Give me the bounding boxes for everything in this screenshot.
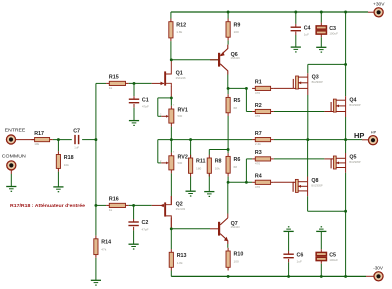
svg-text:100: 100 xyxy=(234,30,239,34)
svg-text:2N5416: 2N5416 xyxy=(231,56,241,60)
svg-text:R4: R4 xyxy=(255,174,262,180)
svg-text:100: 100 xyxy=(234,260,239,264)
svg-text:HP: HP xyxy=(371,131,377,135)
svg-text:R18: R18 xyxy=(64,155,74,161)
svg-text:47k: 47k xyxy=(101,247,106,251)
svg-text:1uF: 1uF xyxy=(304,33,309,37)
svg-text:2SJ103: 2SJ103 xyxy=(176,207,186,211)
svg-text:R1: R1 xyxy=(255,80,262,86)
svg-text:1k: 1k xyxy=(109,86,113,90)
svg-text:68: 68 xyxy=(234,106,238,110)
svg-text:1k: 1k xyxy=(109,208,113,212)
svg-text:47pF: 47pF xyxy=(142,105,149,109)
svg-text:BUZ900P: BUZ900P xyxy=(349,103,361,107)
svg-text:Q3: Q3 xyxy=(312,75,319,81)
svg-text:R10: R10 xyxy=(234,252,244,258)
svg-text:C7: C7 xyxy=(73,128,80,134)
svg-text:180: 180 xyxy=(196,167,201,171)
svg-text:Q8: Q8 xyxy=(311,178,318,184)
svg-text:470: 470 xyxy=(255,114,260,118)
svg-text:500: 500 xyxy=(178,114,183,118)
svg-text:BUZ900P: BUZ900P xyxy=(312,80,324,84)
svg-text:RV2: RV2 xyxy=(178,154,188,160)
svg-text:ENTREE: ENTREE xyxy=(5,128,26,134)
svg-text:1.8k: 1.8k xyxy=(177,261,183,265)
svg-text:R6: R6 xyxy=(234,157,241,163)
svg-text:R2: R2 xyxy=(255,103,262,109)
svg-text:BUZ905P: BUZ905P xyxy=(349,160,361,164)
svg-text:10k: 10k xyxy=(215,167,220,171)
svg-text:R12: R12 xyxy=(176,22,186,28)
svg-text:R3: R3 xyxy=(255,150,262,156)
svg-text:HP: HP xyxy=(354,131,364,140)
svg-text:R17/R18 : Atténuateur d'entrée: R17/R18 : Atténuateur d'entrée xyxy=(10,203,85,208)
svg-text:47pF: 47pF xyxy=(142,227,149,231)
svg-text:Q4: Q4 xyxy=(349,98,356,104)
svg-text:R17: R17 xyxy=(34,131,44,137)
svg-text:2.2k: 2.2k xyxy=(255,142,261,146)
svg-text:2N3440: 2N3440 xyxy=(231,225,241,229)
svg-text:2SK246: 2SK246 xyxy=(176,76,186,80)
svg-text:1.8k: 1.8k xyxy=(176,30,182,34)
svg-text:10k: 10k xyxy=(64,163,69,167)
svg-text:RV1: RV1 xyxy=(178,108,188,114)
svg-text:1uF: 1uF xyxy=(297,260,302,264)
svg-text:470: 470 xyxy=(255,162,260,166)
svg-text:100uF: 100uF xyxy=(329,32,338,36)
svg-text:R7: R7 xyxy=(255,131,262,137)
svg-text:R9: R9 xyxy=(234,22,241,28)
svg-text:BUZ905P: BUZ905P xyxy=(311,183,323,187)
svg-text:100uF: 100uF xyxy=(329,258,338,262)
svg-text:10k: 10k xyxy=(34,142,39,146)
svg-text:R11: R11 xyxy=(196,159,206,165)
svg-text:-30V: -30V xyxy=(373,265,384,271)
svg-text:COMMUN: COMMUN xyxy=(2,154,27,160)
svg-text:C4: C4 xyxy=(304,25,311,31)
svg-text:500: 500 xyxy=(178,161,183,165)
svg-text:+30V: +30V xyxy=(373,2,385,8)
svg-text:R14: R14 xyxy=(101,239,111,245)
svg-text:C6: C6 xyxy=(297,252,304,258)
svg-text:C1: C1 xyxy=(142,97,149,103)
svg-text:C2: C2 xyxy=(142,220,149,226)
svg-text:68: 68 xyxy=(234,165,238,169)
svg-text:R13: R13 xyxy=(177,253,187,259)
svg-text:Q5: Q5 xyxy=(349,155,356,161)
svg-text:R15: R15 xyxy=(109,75,119,81)
svg-text:R8: R8 xyxy=(215,159,222,165)
svg-text:R16: R16 xyxy=(109,197,119,203)
svg-text:1uF: 1uF xyxy=(74,146,79,150)
svg-text:470: 470 xyxy=(255,91,260,95)
svg-text:470: 470 xyxy=(255,185,260,189)
svg-text:R5: R5 xyxy=(234,98,241,104)
